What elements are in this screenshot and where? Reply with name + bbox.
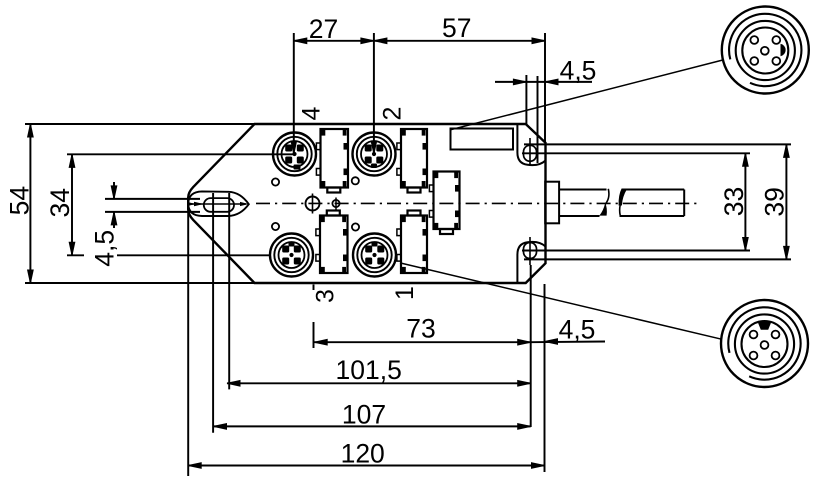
svg-text:54: 54 [5,186,35,215]
svg-text:33: 33 [719,187,749,216]
svg-text:2: 2 [378,107,406,121]
svg-text:73: 73 [406,314,435,344]
svg-text:3: 3 [312,289,340,303]
svg-text:34: 34 [45,188,75,217]
svg-text:27: 27 [309,14,338,44]
svg-text:39: 39 [760,187,790,216]
svg-text:4,5: 4,5 [559,315,596,345]
svg-text:4: 4 [297,106,325,120]
svg-text:4,5: 4,5 [560,56,597,86]
svg-text:57: 57 [442,13,471,43]
svg-text:107: 107 [342,400,386,430]
svg-text:1: 1 [391,286,419,300]
svg-text:101,5: 101,5 [336,355,402,385]
svg-text:4,5: 4,5 [89,230,119,267]
svg-text:120: 120 [341,439,385,469]
